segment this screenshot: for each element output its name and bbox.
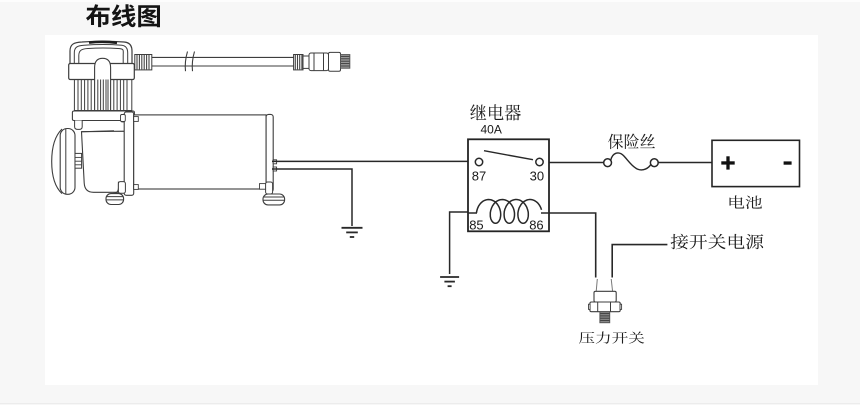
battery - terminal mark xyxy=(784,161,792,164)
compressor: head flange xyxy=(69,64,135,80)
pressure switch: left lead wire xyxy=(596,279,597,292)
battery BT1 box xyxy=(712,140,800,186)
compressor: crankcase body xyxy=(82,131,127,192)
label 电池 xyxy=(730,195,762,209)
pressure switch: threaded stub xyxy=(600,312,610,323)
svg-text:40A: 40A xyxy=(481,122,502,136)
compressor: left mounting foot xyxy=(113,182,118,194)
label 继电器 xyxy=(470,104,521,120)
ground G2 (relay coil ground) xyxy=(440,276,459,278)
relay pin 87 terminal circle xyxy=(475,158,482,165)
compressor: dark top seam xyxy=(89,41,117,45)
compressor: tank right end plate xyxy=(266,114,273,191)
wire: fuse to battery xyxy=(658,162,712,164)
wire: pressure switch to switched power lead xyxy=(612,245,667,278)
compressor: tank bolts xyxy=(134,117,139,122)
label 接开关电源 xyxy=(671,234,764,250)
wire: relay pin 86 to pressure switch xyxy=(549,213,596,278)
compressor: left end cap disc xyxy=(52,129,62,194)
compressor: central arch xyxy=(95,58,111,110)
compressor: motor cooling fins xyxy=(73,80,75,111)
wire: compressor to relay pin 87 xyxy=(272,160,468,162)
ground G1 (compressor ground) xyxy=(342,227,363,229)
top light strip xyxy=(0,0,860,2)
wire: relay pin 85 to ground xyxy=(450,212,468,274)
hose: threaded tip xyxy=(341,55,350,69)
relay contact arm (87-30) xyxy=(484,151,533,160)
hose: tube lines xyxy=(152,56,294,58)
compressor: head dome xyxy=(70,41,132,63)
relay K1 box xyxy=(468,139,549,231)
fuse F1: left terminal circle xyxy=(604,159,612,167)
compressor: lower motor band xyxy=(72,111,134,121)
fuse F1: S-curve element xyxy=(611,153,651,170)
svg-text:86: 86 xyxy=(529,218,543,233)
label 保险丝 xyxy=(608,134,655,150)
wire: compressor to ground (horizontal+vertical) xyxy=(272,169,352,226)
svg-text:85: 85 xyxy=(469,218,483,233)
compressor: right mounting foot xyxy=(266,182,273,194)
compressor: shaft hub xyxy=(75,153,82,168)
hose: collar xyxy=(303,56,309,68)
svg-text:87: 87 xyxy=(472,168,486,183)
relay pin 30 terminal circle xyxy=(536,158,543,165)
pressure switch: cap body xyxy=(594,291,616,302)
label 压力开关 xyxy=(579,332,644,344)
hose: union nut xyxy=(309,53,329,71)
relay coil (85-86) xyxy=(477,200,542,224)
fuse F1: right terminal circle xyxy=(650,159,658,167)
title 布线图 xyxy=(86,4,160,27)
pressure switch: right lead wire xyxy=(611,279,612,292)
bottom separator line xyxy=(0,403,860,404)
hose: break marks xyxy=(185,52,187,72)
battery + terminal mark xyxy=(721,161,734,164)
hose: right ferrule xyxy=(294,55,303,70)
compressor: motor-tank joint column xyxy=(124,112,134,195)
hose: end cylinder xyxy=(329,52,341,71)
pressure switch: hex nut xyxy=(590,302,620,312)
svg-text:30: 30 xyxy=(530,168,544,183)
hose: left ferrule at head xyxy=(135,55,152,70)
white content panel xyxy=(45,35,818,385)
compressor: tank cylinder xyxy=(134,115,266,189)
wire: relay pin 30 to fuse xyxy=(549,162,604,164)
